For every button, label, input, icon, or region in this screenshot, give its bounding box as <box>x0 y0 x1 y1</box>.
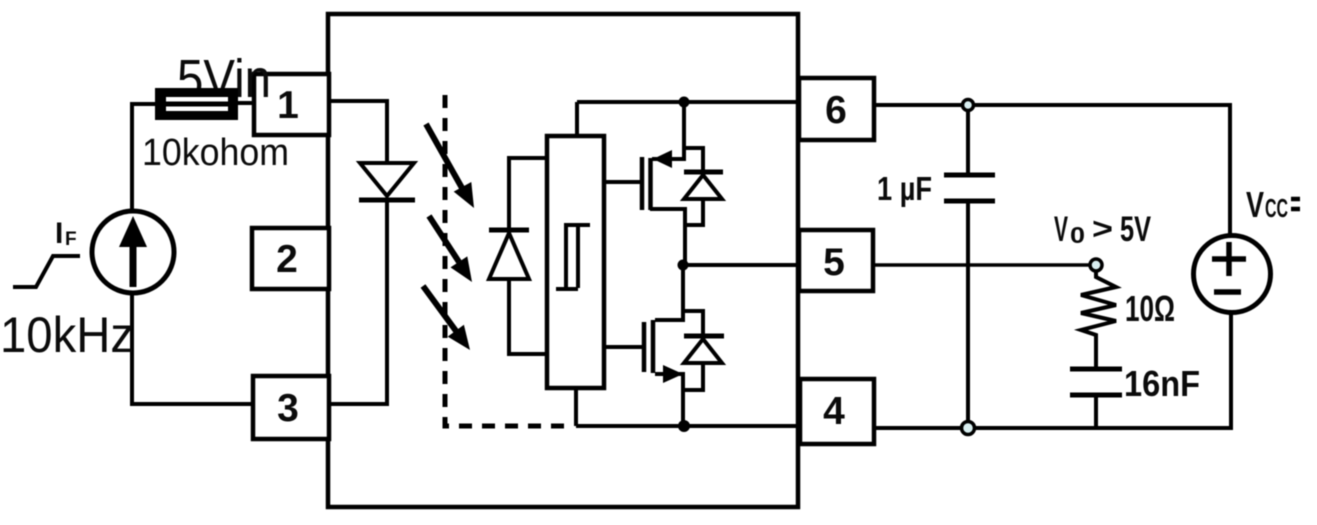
light arrow 3 <box>423 286 470 350</box>
pin box 2 <box>252 228 329 289</box>
bottom rail to pin 4 <box>576 424 800 428</box>
svg-text:I: I <box>55 217 63 250</box>
svg-text:4: 4 <box>823 390 845 433</box>
wire block top to top rail <box>575 102 579 136</box>
label V0 > 5V <box>1054 210 1151 249</box>
wire pin 5 to V0 node <box>873 263 1096 267</box>
svg-text:16nF: 16nF <box>1124 363 1200 404</box>
transistor Q1 source path <box>650 209 685 265</box>
junction dot bottom rail <box>678 420 690 432</box>
wire block bottom <box>574 388 578 426</box>
wire from current source bottom to pin 3 <box>132 292 253 404</box>
light arrow 1 <box>426 124 474 208</box>
label 16nF <box>1124 363 1200 404</box>
node circle pin6 rail <box>963 100 974 111</box>
wire photodiode bottom <box>509 279 547 354</box>
node circle bottom rail <box>962 422 975 435</box>
pin box 5 <box>799 230 873 291</box>
resistor R1 10kohm <box>155 88 238 120</box>
label 10kohom <box>142 132 289 174</box>
svg-text:5: 5 <box>823 241 845 284</box>
svg-text:5V: 5V <box>1120 210 1151 249</box>
LED D1 <box>359 163 415 200</box>
svg-text:1: 1 <box>277 84 299 127</box>
pin box 6 <box>799 78 874 140</box>
label 1uF <box>877 170 932 207</box>
body diode D3 of Q1 <box>684 148 723 225</box>
node circle V0 <box>1090 259 1102 271</box>
middle rail dot to pin 5 <box>683 263 799 267</box>
svg-text:3: 3 <box>277 387 299 430</box>
pin box 4 <box>800 379 874 444</box>
transistor Q2 channel bar <box>651 320 656 373</box>
junction dot middle rail <box>678 260 689 271</box>
voltage source V1 Vcc <box>1194 236 1271 313</box>
pin number 4 <box>823 390 845 433</box>
pin number 5 <box>823 241 845 284</box>
label 5Vin <box>177 49 271 109</box>
wire from current source top to resistor R1 left lead <box>132 104 155 212</box>
svg-text:10kohom: 10kohom <box>142 132 289 174</box>
transistor Q2 gate bar <box>642 322 647 372</box>
pin box 1 <box>254 74 329 135</box>
svg-text:10kHz: 10kHz <box>0 307 134 363</box>
transistor Q1 channel bar <box>648 158 653 210</box>
svg-text:F: F <box>65 229 77 250</box>
body diode D4 of Q2 <box>683 311 724 390</box>
top rail to pin 6 <box>577 100 799 104</box>
resistor R1 right lead to pin 1 <box>238 101 254 105</box>
capacitor C2 16nF <box>1070 369 1122 428</box>
light arrow 2 <box>429 216 472 282</box>
transistor Q1 drain path with arrow <box>652 102 684 168</box>
pin number 6 <box>825 89 847 132</box>
transistor Q2 source path with arrow <box>655 365 683 426</box>
label IF <box>55 217 77 250</box>
wire pin 6 to Vcc top <box>874 105 1230 235</box>
wire pin 4 to Vcc bottom (ground rail) <box>874 313 1231 428</box>
label Vcc <box>1246 184 1300 225</box>
wire pin1 to LED anode <box>329 101 387 162</box>
IC outline U1 <box>328 14 798 507</box>
svg-text:1 µF: 1 µF <box>877 170 932 207</box>
current source I1 <box>92 211 174 293</box>
svg-text:10Ω: 10Ω <box>1125 288 1175 329</box>
label 10kHz <box>0 307 134 363</box>
optical barrier dashed line <box>445 95 571 426</box>
label 10ohm <box>1125 288 1175 329</box>
wire LED cathode to pin 3 <box>329 200 387 404</box>
photodiode D2 <box>489 230 529 279</box>
pin number 1 <box>277 84 299 127</box>
junction dot top rail <box>679 97 690 108</box>
svg-text:0: 0 <box>1070 222 1085 248</box>
gate wire Q1 <box>604 180 643 184</box>
hysteresis symbol <box>556 225 590 289</box>
transistor Q1 gate bar <box>640 157 645 210</box>
pin number 3 <box>277 387 299 430</box>
wire photodiode top <box>509 158 547 228</box>
step waveform symbol <box>13 256 80 287</box>
driver block U2 <box>547 136 604 388</box>
svg-text:2: 2 <box>276 238 298 281</box>
svg-text:V: V <box>1054 210 1068 249</box>
transistor Q2 drain path <box>655 265 683 320</box>
gate wire Q2 <box>604 345 644 349</box>
svg-text:CC: CC <box>1265 193 1288 223</box>
pin box 3 <box>253 376 329 439</box>
capacitor C1 1uF <box>944 105 995 428</box>
svg-text:>: > <box>1092 211 1113 246</box>
svg-text:V: V <box>1246 184 1264 225</box>
resistor R2 10 ohm zigzag <box>1081 271 1116 367</box>
svg-text:6: 6 <box>825 89 847 132</box>
pin number 2 <box>276 238 298 281</box>
